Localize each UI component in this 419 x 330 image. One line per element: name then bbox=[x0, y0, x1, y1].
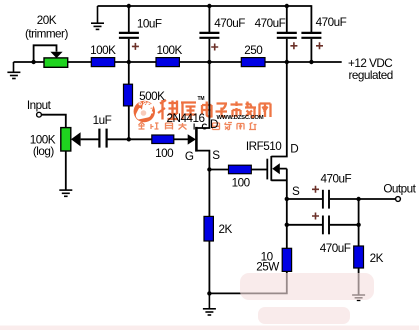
capacitor C5 470uF bbox=[323, 216, 329, 235]
channel bar bbox=[195, 127, 198, 152]
svg-text:20K: 20K bbox=[37, 14, 57, 27]
gate bar bbox=[266, 159, 268, 180]
wire: source row to cap C4 bbox=[287, 198, 322, 200]
svg-text:100K: 100K bbox=[90, 44, 116, 57]
svg-text:S: S bbox=[292, 185, 300, 198]
svg-text:250: 250 bbox=[244, 44, 263, 57]
plus of C4 bbox=[312, 186, 319, 193]
drain lead bbox=[271, 62, 287, 157]
svg-text:470uF: 470uF bbox=[214, 17, 245, 30]
svg-text:D: D bbox=[290, 142, 298, 155]
wire: source column between caps bbox=[286, 199, 288, 248]
wire: C5 to right column bbox=[330, 224, 359, 226]
capacitor C2 470uF bbox=[277, 33, 297, 38]
ground bottom bbox=[203, 293, 216, 315]
svg-text:1uF: 1uF bbox=[93, 114, 112, 127]
output terminal bbox=[396, 197, 401, 202]
svg-text:2K: 2K bbox=[370, 252, 384, 265]
svg-text:100K: 100K bbox=[157, 44, 183, 57]
resistor 250 bbox=[241, 58, 265, 67]
svg-text:100: 100 bbox=[155, 147, 174, 160]
wire: 2K #2 to ground bbox=[358, 268, 360, 295]
transistor Q1 2N4416 bbox=[188, 62, 210, 170]
svg-text:IRF510: IRF510 bbox=[246, 140, 282, 153]
watermark row 全球最大IC D 购网站 bbox=[139, 122, 187, 130]
top rail (+12V top wire) bbox=[98, 5, 312, 7]
svg-text:(trimmer): (trimmer) bbox=[25, 27, 68, 40]
wire: C3 bottom lead bbox=[310, 39, 312, 62]
junction dot trimmer/ground bbox=[31, 60, 35, 64]
ground under pot bbox=[59, 190, 72, 196]
plus of 10uF bbox=[132, 43, 139, 50]
wire: C4 to output node bbox=[330, 198, 396, 200]
resistor 100 #1 bbox=[152, 135, 174, 144]
watermark glyph block bbox=[213, 123, 220, 130]
wire: source node to 100 #2 bbox=[209, 169, 228, 171]
junction dot gate node bbox=[127, 137, 131, 141]
svg-text:(log): (log) bbox=[33, 145, 54, 158]
transistor Q2 IRF510 bbox=[267, 62, 287, 199]
wire: C1 bottom lead bbox=[208, 39, 210, 62]
ground top-left bbox=[91, 6, 104, 29]
junction dot IRF source top bbox=[285, 197, 289, 201]
resistor 100K #2 bbox=[156, 58, 179, 67]
plus of C5 bbox=[312, 213, 319, 220]
wire: 500K bottom lead bbox=[128, 106, 130, 139]
junction dot output node bbox=[356, 197, 360, 201]
watermark char 维 (big) bbox=[158, 100, 178, 120]
resistor 100 #2 bbox=[229, 165, 252, 174]
wire: 10/25W to bottom rail bbox=[209, 271, 286, 293]
pink watermark blob 2 bbox=[258, 307, 350, 324]
capacitor 1uF bbox=[99, 129, 106, 148]
wire: second row to cap C5 bbox=[287, 224, 322, 226]
svg-text:100: 100 bbox=[232, 176, 251, 189]
gate arrow bbox=[188, 134, 196, 144]
plus of C2 bbox=[290, 42, 297, 49]
svg-text:470uF: 470uF bbox=[320, 242, 351, 255]
wire: C2 bottom lead bbox=[286, 39, 288, 62]
junction dot second row right bbox=[356, 223, 360, 227]
svg-text:25W: 25W bbox=[256, 260, 279, 273]
ground left-mid bbox=[7, 62, 20, 79]
source leads bbox=[271, 169, 287, 199]
svg-text:WWW.DZSC.COM: WWW.DZSC.COM bbox=[217, 115, 264, 121]
wire: 1uF to gate node bbox=[108, 138, 152, 140]
wire: cap C1 top lead bbox=[208, 6, 210, 32]
wire: input to pot top bbox=[42, 115, 66, 128]
input terminal bbox=[37, 112, 42, 117]
watermark 电子市场网 (5 solid chars) bbox=[202, 102, 271, 118]
junction dots on top rail bbox=[127, 4, 131, 8]
wire: wiper to 1uF bbox=[81, 138, 99, 140]
resistor 500K bbox=[124, 84, 133, 106]
plus of C3 bbox=[316, 42, 323, 49]
channel bar bbox=[270, 156, 272, 181]
watermark logo circle bbox=[134, 101, 155, 122]
pot 100K log body bbox=[61, 128, 71, 151]
svg-text:D: D bbox=[210, 118, 218, 131]
resistor 2K #2 bbox=[354, 246, 364, 268]
wire: cap C2 top lead bbox=[286, 6, 288, 32]
wire: output column down to 2K #2 bbox=[358, 199, 360, 246]
plus of C1 bbox=[211, 44, 218, 51]
watermark char 库 (big) bbox=[181, 103, 197, 121]
capacitor C3 470uF bbox=[301, 33, 321, 38]
wire: rail corner down to cap C3 bbox=[310, 5, 312, 32]
wire: 100 #2 to IRF gate bbox=[251, 169, 266, 171]
svg-text:2K: 2K bbox=[218, 223, 232, 236]
capacitor C1 470uF bbox=[199, 33, 219, 38]
svg-text:TM: TM bbox=[198, 96, 205, 102]
svg-text:500K: 500K bbox=[139, 90, 165, 103]
svg-text:10uF: 10uF bbox=[137, 18, 162, 31]
junction dot bottom rail bbox=[207, 291, 211, 295]
ground under 2K #2 bbox=[352, 295, 365, 300]
wire: source node down to 2K #1 bbox=[208, 170, 210, 217]
trimmer wiper loop wire bbox=[34, 45, 57, 62]
svg-text:470uF: 470uF bbox=[255, 17, 286, 30]
pot wiper arrow bbox=[71, 132, 81, 146]
trimmer wiper arrow bbox=[50, 52, 62, 58]
svg-text:S: S bbox=[212, 149, 220, 162]
substrate arrow bbox=[272, 163, 280, 174]
pink watermark blob 1 bbox=[240, 273, 374, 300]
svg-text:2N4416: 2N4416 bbox=[167, 112, 205, 125]
wire: pot bottom to ground bbox=[65, 151, 67, 190]
wire: 100 to JFET gate bbox=[174, 138, 189, 140]
resistor 100K #1 bbox=[91, 58, 114, 67]
wire: 500K top lead bbox=[128, 62, 130, 84]
trimmer R 20K body bbox=[44, 58, 68, 67]
svg-text:+12 VDC: +12 VDC bbox=[348, 57, 392, 70]
junction dot second row left bbox=[285, 223, 289, 227]
svg-text:470uF: 470uF bbox=[320, 173, 351, 186]
wire: 2K #1 bottom to bottom rail bbox=[208, 241, 210, 293]
capacitor 10uF bbox=[119, 33, 139, 38]
svg-text:Input: Input bbox=[27, 99, 52, 112]
junction dot source node bbox=[207, 167, 211, 171]
wire: 10uF bottom lead bbox=[128, 39, 130, 62]
capacitor C4 470uF bbox=[323, 190, 329, 209]
main supply rail y=62 bbox=[14, 61, 342, 63]
resistor 10 25W bbox=[282, 248, 291, 271]
resistor 2K #1 bbox=[204, 216, 213, 241]
drain lead bbox=[196, 62, 209, 128]
pink bottom strip bbox=[0, 326, 419, 330]
svg-text:470uF: 470uF bbox=[316, 16, 347, 29]
junction dots on supply rail bbox=[127, 60, 131, 64]
svg-text:G: G bbox=[185, 150, 194, 163]
svg-text:Output: Output bbox=[383, 182, 416, 195]
source lead bbox=[196, 151, 209, 170]
wire: 10uF top lead bbox=[128, 6, 130, 32]
svg-text:regulated: regulated bbox=[349, 69, 393, 82]
